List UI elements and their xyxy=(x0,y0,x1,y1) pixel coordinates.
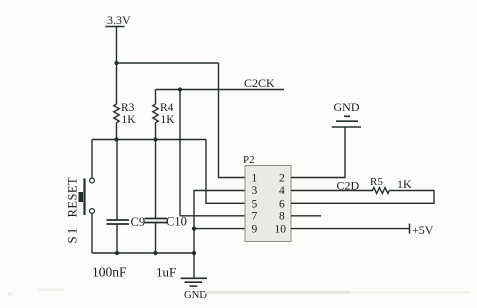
power +5V terminal xyxy=(410,223,434,237)
svg-text:5: 5 xyxy=(252,198,258,210)
svg-text:100nF: 100nF xyxy=(92,264,127,279)
svg-text:R5: R5 xyxy=(370,176,383,188)
node junction ground rail xyxy=(192,251,196,255)
wire pin8 stub xyxy=(291,215,321,217)
svg-text:R3: R3 xyxy=(121,102,135,114)
wire pin9 xyxy=(194,228,245,230)
svg-text:7: 7 xyxy=(252,211,258,223)
svg-text:4: 4 xyxy=(279,185,285,197)
svg-text:8: 8 xyxy=(279,211,285,223)
wire switch column lower xyxy=(91,213,93,253)
wire pin10 to +5V xyxy=(291,228,410,230)
svg-text:RESET: RESET xyxy=(65,177,79,217)
svg-text:C2CK: C2CK xyxy=(244,76,275,90)
svg-text:1K: 1K xyxy=(397,177,412,191)
svg-text:C2D: C2D xyxy=(337,179,360,193)
wire switch column upper xyxy=(91,140,93,179)
svg-text:1K: 1K xyxy=(161,114,176,126)
svg-text:S1: S1 xyxy=(65,226,80,244)
connector P2 xyxy=(243,154,291,242)
wire 3.3V stem down to junction xyxy=(116,27,118,64)
svg-text:1K: 1K xyxy=(122,114,137,126)
svg-text:+5V: +5V xyxy=(412,223,434,237)
wire pin3 to ground column xyxy=(194,191,245,279)
svg-text:2: 2 xyxy=(279,172,285,184)
node junction R4 bottom xyxy=(153,137,157,141)
wire pin4 C2D xyxy=(291,190,373,192)
ground bottom symbol xyxy=(181,278,208,301)
svg-text:10: 10 xyxy=(275,224,287,236)
wire pin2 to ground xyxy=(291,127,345,178)
wire net C2CK horizontal xyxy=(156,89,285,91)
svg-text:GND: GND xyxy=(334,100,360,114)
ground top symbol xyxy=(332,100,361,127)
resistor R4 xyxy=(153,90,175,140)
wire RESET net horizontal xyxy=(92,139,206,141)
power 3.3V label xyxy=(106,13,132,27)
svg-text:R4: R4 xyxy=(160,102,174,114)
svg-text:C10: C10 xyxy=(166,214,187,228)
wire RESET drop to pin5 xyxy=(206,140,245,204)
node junction C2CK xyxy=(178,87,182,91)
svg-text:1uF: 1uF xyxy=(156,264,176,279)
wire C2CK drop to pin7 xyxy=(180,90,245,216)
wire pin1 vertical drop xyxy=(219,63,246,178)
resistor R3 xyxy=(114,63,136,140)
svg-text:GND: GND xyxy=(184,289,207,301)
capacitor C10 xyxy=(145,140,187,254)
svg-text:3: 3 xyxy=(252,185,258,197)
svg-text:P2: P2 xyxy=(243,154,255,166)
node junction 3.3V rail xyxy=(114,61,118,65)
svg-text:1: 1 xyxy=(252,172,258,184)
node junction R3 bottom xyxy=(114,137,118,141)
svg-text:6: 6 xyxy=(279,198,285,210)
switch S1 xyxy=(65,177,95,244)
node junction C9 bottom xyxy=(115,251,119,255)
svg-text:9: 9 xyxy=(252,224,258,236)
node junction C10 bottom xyxy=(153,251,157,255)
node junction pin9 xyxy=(192,227,196,231)
scan artifact smudges xyxy=(8,288,471,295)
capacitor C9 xyxy=(107,140,146,254)
wire ground rail bottom xyxy=(92,252,196,254)
svg-text:3.3V: 3.3V xyxy=(107,13,131,27)
wire R5 to pin6 loop xyxy=(291,191,434,204)
wire 3.3V rail horizontal to pin1 drop xyxy=(117,62,219,64)
svg-text:C9: C9 xyxy=(131,215,146,229)
resistor R5 xyxy=(370,176,412,194)
